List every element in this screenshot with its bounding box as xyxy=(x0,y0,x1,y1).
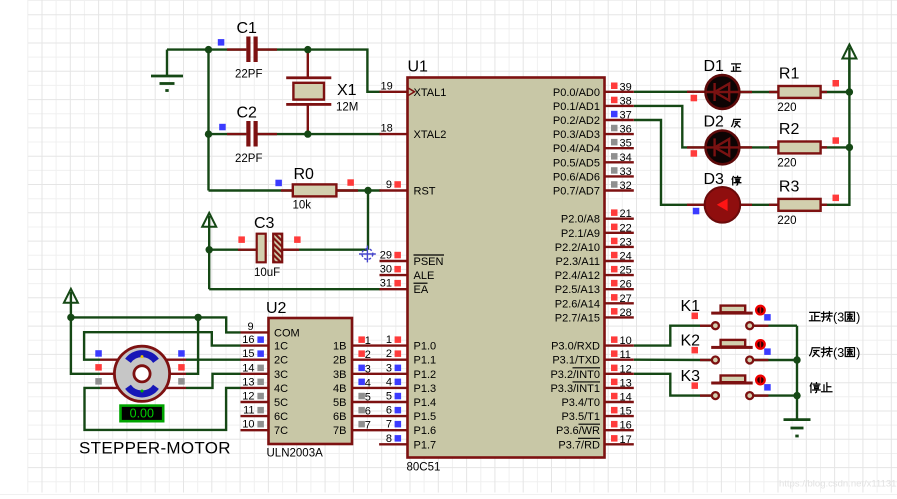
origin marker xyxy=(359,246,376,263)
wire R3 to rail xyxy=(821,58,850,205)
svg-text:3C: 3C xyxy=(274,369,288,381)
svg-text:P1.0: P1.0 xyxy=(414,341,437,353)
transistor-array U2 ULN2003A body xyxy=(269,318,353,444)
node R1 right xyxy=(846,88,853,95)
wire C3 left horizontal xyxy=(209,248,257,250)
wire power rail down to motor mid-left xyxy=(71,317,100,373)
svg-text:22PF: 22PF xyxy=(235,153,263,165)
svg-text:4B: 4B xyxy=(333,383,346,395)
wire pin12 to K3 xyxy=(634,374,711,396)
svg-text:3B: 3B xyxy=(333,369,346,381)
svg-text:P2.2/A10: P2.2/A10 xyxy=(555,242,600,254)
svg-text:P3.4/T0: P3.4/T0 xyxy=(561,397,600,409)
push-button K2 xyxy=(700,359,711,361)
svg-text:4: 4 xyxy=(365,377,371,389)
svg-text:5: 5 xyxy=(365,392,371,404)
label K1 function xyxy=(809,312,820,320)
wire GND to C1 left node xyxy=(167,48,209,50)
svg-text:39: 39 xyxy=(620,81,632,93)
svg-text:2B: 2B xyxy=(333,355,346,367)
wire crystal top xyxy=(307,50,309,78)
svg-text:D2: D2 xyxy=(704,114,725,131)
svg-text:17: 17 xyxy=(620,434,632,446)
svg-text:RST: RST xyxy=(414,186,436,198)
svg-text:8: 8 xyxy=(386,433,392,445)
svg-text:R0: R0 xyxy=(294,166,315,183)
svg-text:10uF: 10uF xyxy=(254,267,280,279)
svg-text:11: 11 xyxy=(243,405,254,417)
svg-text:P0.5/AD5: P0.5/AD5 xyxy=(553,157,600,169)
svg-text:35: 35 xyxy=(620,138,632,150)
svg-text:220: 220 xyxy=(777,215,796,227)
capacitor C3 10uF xyxy=(257,234,266,263)
svg-text:P0.0/AD0: P0.0/AD0 xyxy=(553,87,600,99)
svg-text:29: 29 xyxy=(380,250,392,262)
svg-text:STEPPER-MOTOR: STEPPER-MOTOR xyxy=(79,439,231,458)
svg-text:12: 12 xyxy=(242,391,254,403)
svg-text:4C: 4C xyxy=(274,383,288,395)
wire EA horizontal xyxy=(209,288,380,290)
wire C1 node to XTAL1 xyxy=(308,50,381,92)
svg-text:P0.1/AD1: P0.1/AD1 xyxy=(553,101,600,113)
svg-text:7: 7 xyxy=(365,420,371,432)
svg-text:K1: K1 xyxy=(681,298,701,315)
svg-text:PSEN: PSEN xyxy=(414,256,444,268)
svg-text:36: 36 xyxy=(620,124,632,136)
ground bottom-right xyxy=(784,418,811,421)
capacitor C2 22PF xyxy=(246,121,250,147)
node R2 right xyxy=(846,144,853,151)
stepper speed display xyxy=(121,406,164,422)
svg-text:P1.4: P1.4 xyxy=(414,397,437,409)
svg-text:1C: 1C xyxy=(274,341,288,353)
svg-text:P2.6/A14: P2.6/A14 xyxy=(555,298,600,310)
wire D1 to R1 xyxy=(740,91,779,93)
svg-text:https://blog.csdn.net/x1113122: https://blog.csdn.net/x111312211 xyxy=(779,479,897,490)
svg-text:5: 5 xyxy=(386,391,392,403)
svg-text:P1.3: P1.3 xyxy=(414,383,437,395)
svg-text:3: 3 xyxy=(837,311,844,325)
svg-text:C1: C1 xyxy=(237,20,258,37)
svg-text:U2: U2 xyxy=(266,300,287,317)
svg-text:3: 3 xyxy=(386,362,392,374)
svg-text:2: 2 xyxy=(386,348,392,360)
svg-text:10k: 10k xyxy=(293,200,312,212)
svg-text:24: 24 xyxy=(620,251,632,263)
svg-text:22PF: 22PF xyxy=(235,69,263,81)
wire pin37 to D3 xyxy=(634,120,706,205)
node C3 left xyxy=(206,246,213,253)
svg-text:19: 19 xyxy=(381,80,393,92)
svg-text:P2.0/A8: P2.0/A8 xyxy=(561,214,600,226)
resistor R3 220 xyxy=(778,199,820,211)
svg-text:34: 34 xyxy=(620,152,632,164)
svg-text:2C: 2C xyxy=(274,355,288,367)
LED D2 xyxy=(706,131,740,165)
svg-text:30: 30 xyxy=(380,264,392,276)
node VCC stepper left xyxy=(67,314,74,321)
power VCC arrow above C3 xyxy=(202,213,216,227)
svg-text:P3.6/WR: P3.6/WR xyxy=(556,425,600,437)
wire pin39 to D1 xyxy=(634,91,706,93)
svg-text:P3.5/T1: P3.5/T1 xyxy=(561,411,600,423)
svg-text:D1: D1 xyxy=(704,58,725,75)
svg-text:P2.1/A9: P2.1/A9 xyxy=(561,228,600,240)
capacitor C1 22PF xyxy=(246,37,250,63)
svg-text:3: 3 xyxy=(837,346,844,360)
svg-text:C2: C2 xyxy=(237,105,258,122)
svg-text:10: 10 xyxy=(620,335,632,347)
wire K2 right to bus xyxy=(754,359,797,361)
svg-text:R1: R1 xyxy=(779,66,800,83)
svg-text:COM: COM xyxy=(274,327,300,339)
svg-text:33: 33 xyxy=(620,166,632,178)
wire D3 to R3 xyxy=(740,204,779,206)
wire R0 right to RST xyxy=(336,189,380,191)
svg-text:9: 9 xyxy=(386,179,392,191)
wire pin10 to K1 xyxy=(634,326,711,346)
svg-text:21: 21 xyxy=(620,208,632,220)
resistor R2 220 xyxy=(778,142,820,154)
wire pin38 to D2 xyxy=(634,106,706,147)
svg-text:P1.1: P1.1 xyxy=(414,355,437,367)
svg-text:P1.6: P1.6 xyxy=(414,425,437,437)
svg-text:7C: 7C xyxy=(274,425,288,437)
LED D3 xyxy=(705,187,741,223)
svg-text:22: 22 xyxy=(620,222,632,234)
svg-text:10: 10 xyxy=(242,419,254,431)
svg-text:4: 4 xyxy=(386,376,392,388)
power VCC arrow stepper xyxy=(64,289,78,303)
node K3 bus junction xyxy=(793,392,800,399)
svg-text:14: 14 xyxy=(242,362,254,374)
node VCC stepper mid xyxy=(194,314,201,321)
svg-text:ALE: ALE xyxy=(414,270,435,282)
wire left vertical bus C1/C2/R0 xyxy=(207,50,209,191)
svg-text:23: 23 xyxy=(620,236,632,248)
svg-text:P3.3/INT1: P3.3/INT1 xyxy=(550,383,600,395)
svg-text:P3.2/INT0: P3.2/INT0 xyxy=(550,369,600,381)
svg-text:D3: D3 xyxy=(704,171,725,188)
wire power rail to COM xyxy=(71,317,241,332)
wire pin11 to K2 xyxy=(634,359,711,362)
wire motor bot-right to 3C xyxy=(186,374,241,388)
svg-text:K3: K3 xyxy=(681,368,701,385)
wire R1 to VCC rail xyxy=(821,91,850,93)
svg-text:27: 27 xyxy=(620,293,632,305)
wire D2 to R2 xyxy=(740,146,779,148)
node C1 left xyxy=(205,46,212,53)
svg-text:P0.2/AD2: P0.2/AD2 xyxy=(553,115,600,127)
LED D1 xyxy=(706,75,740,109)
svg-text:9: 9 xyxy=(247,321,253,333)
svg-text:ULN2003A: ULN2003A xyxy=(267,448,324,460)
svg-text:P2.4/A12: P2.4/A12 xyxy=(555,270,600,282)
svg-text:28: 28 xyxy=(620,307,632,319)
node RST xyxy=(364,187,371,194)
svg-text:6: 6 xyxy=(386,405,392,417)
wire R2 to rail xyxy=(821,146,850,148)
svg-text:U1: U1 xyxy=(408,59,429,76)
resistor R1 220 xyxy=(778,86,820,98)
wire motor mid-right up to rail xyxy=(186,317,198,373)
wire motor top-right to 2C xyxy=(186,359,241,361)
svg-text:12M: 12M xyxy=(336,102,358,114)
svg-text:1: 1 xyxy=(386,334,392,346)
wire crystal bottom xyxy=(307,105,309,134)
svg-text:C3: C3 xyxy=(254,215,275,232)
node C2 left xyxy=(205,130,212,137)
node C2 right xyxy=(304,130,311,137)
svg-text:): ) xyxy=(856,311,860,325)
ground top-left xyxy=(166,50,168,76)
svg-text:P0.7/AD7: P0.7/AD7 xyxy=(553,186,600,198)
wire C1 right to node xyxy=(258,48,308,50)
wire button bus to ground xyxy=(796,326,798,420)
svg-text:1: 1 xyxy=(365,335,371,347)
svg-text:15: 15 xyxy=(620,406,632,418)
svg-text:P0.3/AD3: P0.3/AD3 xyxy=(553,129,600,141)
wire motor bot-left loop to 4C xyxy=(85,388,241,430)
svg-text:15: 15 xyxy=(242,348,254,360)
svg-text:3: 3 xyxy=(365,363,371,375)
svg-text:6C: 6C xyxy=(274,411,288,423)
push-button K1 xyxy=(700,325,711,327)
push-button K3 xyxy=(700,394,711,396)
svg-text:P3.7/RD: P3.7/RD xyxy=(558,439,600,451)
svg-text:2: 2 xyxy=(365,349,371,361)
svg-text:18: 18 xyxy=(381,123,393,135)
svg-text:R2: R2 xyxy=(779,121,800,138)
svg-text:P2.5/A13: P2.5/A13 xyxy=(555,284,600,296)
svg-text:16: 16 xyxy=(242,334,254,346)
svg-text:220: 220 xyxy=(777,102,796,114)
svg-text:X1: X1 xyxy=(337,82,357,99)
resistor R0 10k xyxy=(293,184,337,196)
svg-text:7: 7 xyxy=(386,419,392,431)
svg-text:13: 13 xyxy=(620,377,632,389)
svg-text:R3: R3 xyxy=(779,179,800,196)
op-amp U1 80C51 microcontroller body xyxy=(408,78,605,458)
svg-text:P3.1/TXD: P3.1/TXD xyxy=(552,355,600,367)
svg-text:25: 25 xyxy=(620,265,632,277)
wire motor top-left to 1C xyxy=(84,332,240,360)
svg-text:P3.0/RXD: P3.0/RXD xyxy=(551,341,600,353)
svg-text:80C51: 80C51 xyxy=(407,462,441,474)
svg-text:37: 37 xyxy=(620,110,632,122)
svg-text:7B: 7B xyxy=(333,425,346,437)
svg-text:P2.3/A11: P2.3/A11 xyxy=(556,256,600,268)
svg-text:P1.2: P1.2 xyxy=(414,369,437,381)
svg-text:EA: EA xyxy=(414,284,429,296)
svg-text:5C: 5C xyxy=(274,397,288,409)
svg-text:38: 38 xyxy=(620,95,632,107)
svg-text:16: 16 xyxy=(620,420,632,432)
wire K3 right to bus xyxy=(754,394,797,396)
svg-text:P1.7: P1.7 xyxy=(414,439,437,451)
svg-text:0.00: 0.00 xyxy=(130,407,154,421)
svg-text:11: 11 xyxy=(620,349,631,361)
svg-text:6: 6 xyxy=(365,406,371,418)
wire C3 node down to EA xyxy=(208,250,210,290)
svg-text:5B: 5B xyxy=(333,397,346,409)
wire C2 left horizontal xyxy=(209,133,247,135)
svg-text:XTAL1: XTAL1 xyxy=(414,87,447,99)
wire C2 right to XTAL2 xyxy=(258,133,381,135)
wire RST node down to C3 xyxy=(367,191,369,250)
power VCC arrow top-right xyxy=(842,45,856,59)
node C1 right xyxy=(304,46,311,53)
wire R0 left xyxy=(209,189,293,191)
svg-text:26: 26 xyxy=(620,279,632,291)
label K3 function xyxy=(810,383,820,393)
svg-text:13: 13 xyxy=(242,376,254,388)
svg-text:): ) xyxy=(856,346,860,360)
svg-text:1B: 1B xyxy=(333,341,346,353)
svg-text:32: 32 xyxy=(620,180,632,192)
svg-text:K2: K2 xyxy=(681,332,701,349)
wire K1 right to bus xyxy=(754,325,797,327)
svg-text:P0.4/AD4: P0.4/AD4 xyxy=(553,143,600,155)
crystal X1 12M xyxy=(286,76,331,79)
svg-text:31: 31 xyxy=(380,278,392,290)
svg-text:XTAL2: XTAL2 xyxy=(414,129,447,141)
svg-text:6B: 6B xyxy=(333,411,346,423)
node K2 bus junction xyxy=(793,356,800,363)
svg-text:14: 14 xyxy=(620,392,632,404)
svg-text:P2.7/A15: P2.7/A15 xyxy=(555,312,600,324)
stepper motor body xyxy=(100,359,119,361)
svg-text:220: 220 xyxy=(777,158,796,170)
wire C3 right horizontal xyxy=(282,248,368,250)
svg-text:P0.6/AD6: P0.6/AD6 xyxy=(553,171,600,183)
label K2 function xyxy=(810,348,820,357)
svg-text:12: 12 xyxy=(620,363,632,375)
svg-text:P1.5: P1.5 xyxy=(414,411,437,423)
wire C1 left horizontal xyxy=(209,48,247,50)
